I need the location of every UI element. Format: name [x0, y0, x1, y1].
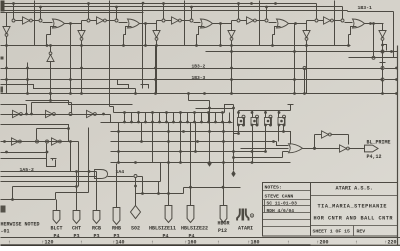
label note -01 [1, 228, 10, 234]
label 1B3-2 [192, 64, 206, 70]
wire row y151 left [1, 144, 49, 159]
wire step y86 mid [118, 80, 129, 89]
wire y104 stub [1, 105, 27, 115]
connector RHB [113, 208, 120, 225]
latch cells D1-D4 [237, 111, 285, 127]
label 1A4 [116, 169, 125, 175]
wire row y141 left [1, 140, 79, 143]
wire top bus line 2 [1, 7, 343, 15]
wire x70 down [70, 142, 72, 172]
svg-text:HERWISE NOTED: HERWISE NOTED [1, 222, 40, 228]
wire crossbar stubs [125, 113, 230, 123]
svg-text:RDH 4/6/04: RDH 4/6/04 [267, 208, 295, 214]
svg-text:REV: REV [357, 228, 366, 234]
label HBLSIZE22 [181, 226, 208, 232]
svg-text:NOTES:: NOTES: [265, 185, 282, 191]
connector HBLSIZE22 [187, 206, 194, 223]
wire stage3 or input [197, 27, 205, 46]
wire right border [397, 46, 399, 247]
transistor pull-up inverter 3 [153, 24, 160, 94]
svg-text:P3: P3 [93, 233, 99, 239]
svg-text:SHEET 1 OF 15: SHEET 1 OF 15 [313, 229, 351, 235]
label CHT pin P3 [73, 233, 79, 239]
wire row y158 left [1, 158, 47, 160]
gate 1A4 nand [95, 170, 108, 179]
node fb junction [313, 147, 316, 150]
wire y79 right ext [385, 78, 398, 81]
connector HBLSIZE11 [165, 206, 172, 223]
connector BL_PRIME pin [365, 145, 379, 152]
wire latch left feed [189, 101, 235, 123]
wire cross row y151 [111, 150, 267, 153]
label HBLSIZE11 [149, 226, 176, 232]
wire top bus line 1 [1, 3, 317, 5]
wire y57 right [349, 22, 398, 59]
label BLCT [50, 226, 62, 232]
svg-text:P3: P3 [73, 233, 79, 239]
transistor pull-up inverter 2 [78, 24, 85, 94]
wire step y100 [26, 99, 133, 104]
svg-text:RCB: RCB [92, 226, 101, 232]
wire top bus line 4 [1, 12, 144, 14]
label RCB [92, 226, 101, 232]
label TIA_MARIA_STEPHANIE [318, 204, 388, 210]
wire y186 [13, 172, 78, 188]
wire loop top [1, 125, 69, 142]
label P4,12 [367, 154, 382, 160]
wire fb in [315, 148, 335, 150]
svg-text:1B3-1: 1B3-1 [358, 5, 373, 11]
wire vertical V6 [334, 1, 336, 46]
svg-text:1B3-3: 1B3-3 [192, 75, 206, 81]
inverter stage 1 [12, 4, 87, 29]
inverter stage 5 [315, 4, 384, 29]
wire crossbar verticals [119, 109, 234, 206]
inverter L2 [46, 110, 56, 117]
svg-text:P4: P4 [162, 233, 168, 239]
label BL_PRIME [367, 140, 391, 146]
wire vertical V2 [110, 1, 114, 113]
wire taps band2 a [7, 24, 72, 94]
wire vertical V1 [34, 1, 36, 46]
wire 1A4 out [108, 175, 143, 194]
label SC 11-01-03 [267, 201, 298, 207]
wire bus y112 [114, 112, 225, 114]
wire vertical V5 [259, 1, 261, 46]
wire stage5 or input [349, 27, 357, 46]
node m1 out [36, 140, 49, 143]
wire stage2 or input [124, 27, 132, 46]
label HBGR [217, 221, 229, 227]
wire or out [303, 147, 316, 150]
wire bus y79 left [1, 78, 64, 81]
wire 1A4 input B [1, 176, 97, 178]
svg-text:RHB: RHB [112, 226, 121, 232]
svg-text:HBLSIZE22: HBLSIZE22 [181, 226, 208, 232]
label S02 [131, 226, 140, 232]
node bus y93 dots [26, 92, 398, 95]
node row113 junctions [25, 113, 105, 116]
wire y181 line [1, 163, 161, 182]
svg-text:BLCT: BLCT [50, 226, 62, 232]
svg-text:HOR CNTR AND BALL CNTR: HOR CNTR AND BALL CNTR [314, 215, 394, 221]
transistor pull-up inverter 5 [303, 24, 310, 94]
svg-text:P12: P12 [218, 228, 227, 234]
other edge mark a [1, 87, 4, 93]
connector HBGR [220, 206, 227, 223]
table title block frame [263, 183, 398, 237]
wire step y86 mid2 [141, 85, 149, 89]
other edge mark b [1, 206, 6, 213]
wire stage4 or input [273, 27, 281, 46]
label 1A5-2 [20, 167, 35, 173]
wire pin drops [57, 164, 136, 211]
transistor clock inverter [47, 44, 54, 100]
wire latch drops [239, 125, 284, 163]
svg-text:CHT: CHT [72, 226, 81, 232]
wire fb top out [331, 135, 349, 145]
label HBGR pin [218, 228, 227, 234]
node diamond end 1 [207, 160, 211, 167]
wire fb out [349, 148, 365, 150]
wire bus y79 right [64, 78, 385, 81]
svg-text:ATARI: ATARI [238, 226, 253, 232]
svg-text:P4,12: P4,12 [367, 154, 382, 160]
transistor cap symbol [47, 159, 57, 167]
wire drop dots [237, 124, 285, 135]
wire vertical V4 [184, 1, 186, 46]
label logo registered [250, 214, 253, 218]
inverter M2 [52, 138, 62, 145]
wire y186 drop [12, 187, 14, 200]
wire step y83 left [1, 85, 136, 89]
inverter FB1 [322, 131, 332, 138]
label note otherwise [1, 222, 40, 228]
inverter L1 [13, 110, 23, 117]
svg-text:S02: S02 [131, 226, 140, 232]
wire bus y51 [206, 50, 398, 53]
wire bus y93 [1, 93, 397, 95]
label RCB pin P3 [93, 233, 99, 239]
label HOR CNTR AND BALL CNTR [314, 215, 394, 221]
label ATARI text [238, 226, 253, 232]
wire vertical V3 [142, 2, 145, 89]
svg-text:1A5-2: 1A5-2 [20, 167, 35, 173]
svg-text:STEVE CANN: STEVE CANN [265, 193, 294, 199]
label ruler marks [8, 239, 397, 245]
node top bus dots [12, 2, 277, 8]
transistor pull-up inverter 4 [228, 24, 235, 94]
wire cross row y141 [111, 140, 277, 143]
wire gate feed low [232, 152, 288, 171]
svg-text:BL_PRIME: BL_PRIME [367, 140, 391, 146]
wire bus y121.5 [101, 122, 233, 124]
wire row y113.5 [1, 114, 111, 116]
wire ruler top [1, 237, 400, 239]
logo atari fuji [237, 209, 248, 221]
wire cross row y162 [111, 161, 291, 164]
wire tap T right [380, 63, 386, 67]
wire gate feed mid [241, 148, 289, 150]
svg-text:↑220: ↑220 [384, 239, 396, 245]
label RHB pin P3 [113, 233, 119, 239]
node bus y45 dots [46, 44, 350, 47]
connector S02 diamond [131, 206, 141, 219]
wire or feed top [284, 132, 291, 145]
svg-text:↑: ↑ [355, 239, 358, 245]
wire pullup6 bracket [381, 44, 386, 51]
transistor pull-up inverter 1 [3, 13, 10, 94]
wire cross row y131 [111, 130, 285, 133]
wire y101 stub [32, 103, 72, 115]
svg-text:ATARI A.S.S.: ATARI A.S.S. [336, 186, 373, 192]
label CHT [72, 226, 81, 232]
svg-text:↑200: ↑200 [316, 239, 328, 245]
label 1B3-3 [192, 75, 206, 81]
inverter stage 2 [87, 4, 162, 29]
wire y67.5 right ext [385, 67, 398, 70]
label STEVE CANN [265, 193, 294, 199]
label 1B3-1 [358, 5, 373, 11]
wire latch feed riser [187, 92, 190, 100]
wire corner x110 [110, 115, 112, 123]
wire loop top2 [37, 127, 70, 139]
connector BLCT [53, 211, 60, 224]
label RHB [112, 226, 121, 232]
wire gate feed top [277, 142, 289, 146]
node crossbar stub dots [123, 111, 231, 123]
wire step end join [134, 89, 137, 95]
node diamond end 2 [231, 171, 235, 178]
svg-text:P4: P4 [53, 233, 59, 239]
wire y199 [1, 193, 89, 201]
svg-text:1B3-2: 1B3-2 [192, 64, 206, 70]
label SHEET 1 OF 15 [313, 229, 351, 235]
inverter M1 [12, 138, 22, 145]
wire rail B [184, 186, 241, 194]
label RDH 4/6/04 [267, 208, 295, 214]
wire top bus line 3 [1, 11, 348, 12]
inverter stage 4 [237, 4, 315, 29]
wire taps band2 b [156, 46, 305, 94]
other bottom-left smear [1, 244, 400, 246]
label REV [357, 228, 366, 234]
wire bus y45 [1, 45, 351, 47]
svg-text:HBGR: HBGR [217, 221, 229, 227]
wire bus y67.5 [1, 67, 385, 70]
wire fb vertical [315, 135, 322, 149]
label NOTES: [265, 185, 282, 191]
label ATARI A.S.S. [336, 186, 373, 192]
inverter FB2 [335, 145, 350, 152]
connector RCB [93, 211, 100, 224]
wire stage1 or input [47, 27, 57, 46]
connector CHT [73, 211, 80, 224]
gate ball or [289, 144, 303, 153]
wire or-out drops [144, 24, 294, 52]
inverter stage 3 [162, 4, 237, 29]
node m2 out [69, 140, 72, 143]
svg-text:TIA_MARIA_STEPHANIE: TIA_MARIA_STEPHANIE [318, 204, 388, 210]
wire latch rail [239, 105, 294, 111]
wire vert x88 [88, 128, 90, 193]
wire ruler bottom [1, 245, 400, 247]
wire top bus line 3b [348, 12, 394, 58]
svg-text:HBLSIZE11: HBLSIZE11 [149, 226, 176, 232]
other edge blob topleft [1, 1, 5, 12]
other edge mark c [1, 57, 4, 60]
transistor pull-up inverter 6 [379, 24, 386, 94]
label BLCT pin P4 [53, 233, 59, 239]
svg-text:-01: -01 [1, 228, 10, 234]
inverter L3 [87, 110, 97, 117]
label HBLSIZE11 pin [162, 233, 168, 239]
wire vert x78 [78, 142, 80, 187]
label HBLSIZE22 pin [188, 233, 194, 239]
wire 1A4 input A [1, 170, 97, 173]
wire s02 rail A [136, 182, 184, 206]
wire row y133 stub [234, 133, 239, 135]
svg-text:SC 11-01-03: SC 11-01-03 [267, 201, 298, 207]
